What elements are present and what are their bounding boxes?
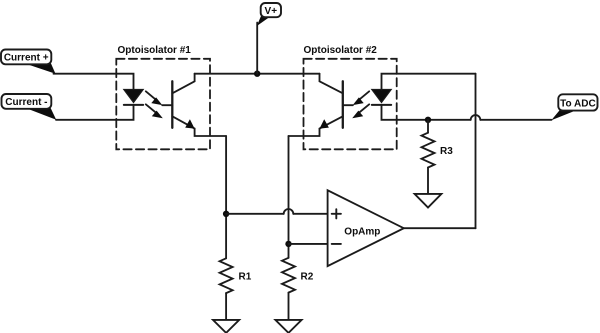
ground (R3) [415,194,442,208]
top V+ bus wire [195,73,320,75]
node: junction dot (emitter2 / R2 / -input) [285,241,291,247]
wire opamp output [404,227,476,229]
light arrows optoisolator #1 [146,91,163,118]
resistor R1 [220,258,233,320]
flag Current - [2,94,57,120]
svg-text:R3: R3 [440,146,453,157]
flag To ADC [551,94,597,120]
svg-text:OpAmp: OpAmp [344,227,380,238]
LED D2 (optoisolator #2) [372,90,391,105]
svg-text:Current -: Current - [5,97,47,108]
ground (R1) [213,320,239,333]
node: R3 junction dot [425,117,431,123]
wire opto1 emitter node vertical to R1 [225,136,227,258]
wire - input [289,243,328,245]
svg-text:Current +: Current + [4,53,49,64]
optoisolator #1 dashed box [116,59,210,150]
phototransistor Q2 base stub [343,104,353,106]
svg-text:R2: R2 [301,272,314,283]
wire + input with hop [226,209,328,214]
op-amp U1 [328,190,404,266]
node: junction dot (emitter1 / R1 / +input) [223,211,229,217]
wire V+ flag to bus [256,23,258,74]
svg-text:R1: R1 [239,272,252,283]
node: V+ junction dot [254,71,260,77]
LED D1 (optoisolator #1) [124,90,143,105]
wire feedback vertical (opamp output to LED2) [475,74,477,229]
optoisolator #2 dashed box [304,59,397,150]
resistor R2 [282,258,295,320]
wire opto2 emitter vertical to R2 [288,136,290,258]
svg-text:V+: V+ [265,6,278,17]
wire LED2 anode to feedback rail [382,74,476,90]
flag Current + [1,50,56,74]
phototransistor Q1 base stub [162,104,172,106]
resistor R3 [422,120,435,194]
phototransistor Q2 (optoisolator #2, mirrored) [289,74,343,136]
wire Current+ to LED1 anode [54,74,134,90]
svg-text:Optoisolator #2: Optoisolator #2 [304,45,378,56]
wire LED1 cathode to Current- [56,105,134,120]
wire LED2 cathode rail with hop to To ADC [382,105,552,120]
light arrows optoisolator #2 [352,91,369,118]
svg-text:To ADC: To ADC [560,98,596,109]
phototransistor Q1 (optoisolator #1) [172,74,226,136]
flag V+ [257,3,281,26]
ground (R2) [275,320,301,333]
svg-text:Optoisolator #1: Optoisolator #1 [118,45,192,56]
